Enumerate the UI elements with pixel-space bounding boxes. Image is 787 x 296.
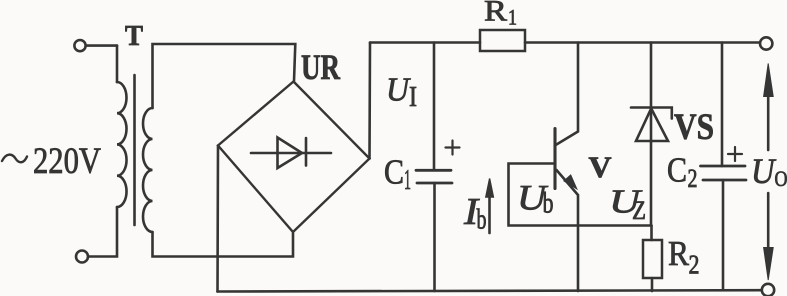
tilde of 220V <box>2 155 27 163</box>
svg-text:220V: 220V <box>33 141 101 182</box>
plus sign C2 <box>728 147 742 161</box>
svg-text:U: U <box>751 151 776 191</box>
svg-text:O: O <box>775 166 787 191</box>
terminal bottom-left <box>76 251 88 263</box>
transistor V collector wire <box>557 43 579 145</box>
Uo arrow line <box>767 95 770 249</box>
zener VS triangle <box>636 109 668 142</box>
svg-text:UR: UR <box>301 47 341 87</box>
svg-text:b: b <box>543 187 554 220</box>
wire secondary top <box>153 44 296 108</box>
svg-text:R: R <box>484 0 507 28</box>
capacitor C2 <box>721 43 724 167</box>
svg-text:b: b <box>477 204 487 236</box>
transistor V emitter <box>557 170 579 291</box>
transformer T secondary winding <box>143 108 153 232</box>
terminal bottom-right <box>762 284 774 296</box>
svg-text:V: V <box>589 151 612 184</box>
Uo arrowhead up <box>764 64 774 97</box>
terminal top-right <box>760 37 772 49</box>
svg-text:2: 2 <box>689 250 700 280</box>
Uo arrowhead down <box>764 248 774 281</box>
wire secondary bottom <box>153 232 294 257</box>
wire <box>88 207 117 257</box>
emitter arrowhead <box>564 175 576 188</box>
zener VS wire <box>650 43 653 226</box>
svg-text:C: C <box>384 153 404 192</box>
svg-text:U: U <box>386 72 411 109</box>
wire bridge plus output <box>368 43 371 159</box>
bridge rectifier UR diamond <box>218 82 370 233</box>
svg-text:I: I <box>409 82 417 113</box>
wire R2 top <box>650 226 653 241</box>
svg-text:1: 1 <box>508 5 517 30</box>
resistor R1 <box>480 30 525 51</box>
capacitor C1 <box>433 43 436 171</box>
svg-text:Z: Z <box>632 196 646 225</box>
svg-text:2: 2 <box>688 164 698 193</box>
terminal top-left <box>74 40 85 51</box>
svg-text:1: 1 <box>404 164 411 196</box>
svg-text:R: R <box>668 234 690 273</box>
svg-text:T: T <box>125 21 143 52</box>
resistor R2 <box>643 240 662 278</box>
base wire with Ub loop <box>509 164 652 226</box>
transistor V base bar <box>553 129 556 189</box>
transformer core <box>133 75 136 225</box>
bottom rail <box>218 290 762 291</box>
wire R2 bottom <box>651 278 654 291</box>
wire <box>86 44 117 47</box>
top rail <box>370 41 480 44</box>
plus sign C1 <box>446 141 460 155</box>
zener VS cathode bar <box>631 108 672 119</box>
diode inside bridge <box>251 152 331 155</box>
svg-text:VS: VS <box>674 107 714 148</box>
svg-text:C: C <box>667 151 687 190</box>
wire <box>116 46 119 82</box>
Ib arrow <box>488 196 491 233</box>
transformer T primary winding <box>117 82 127 207</box>
wire bridge minus output <box>216 146 219 292</box>
